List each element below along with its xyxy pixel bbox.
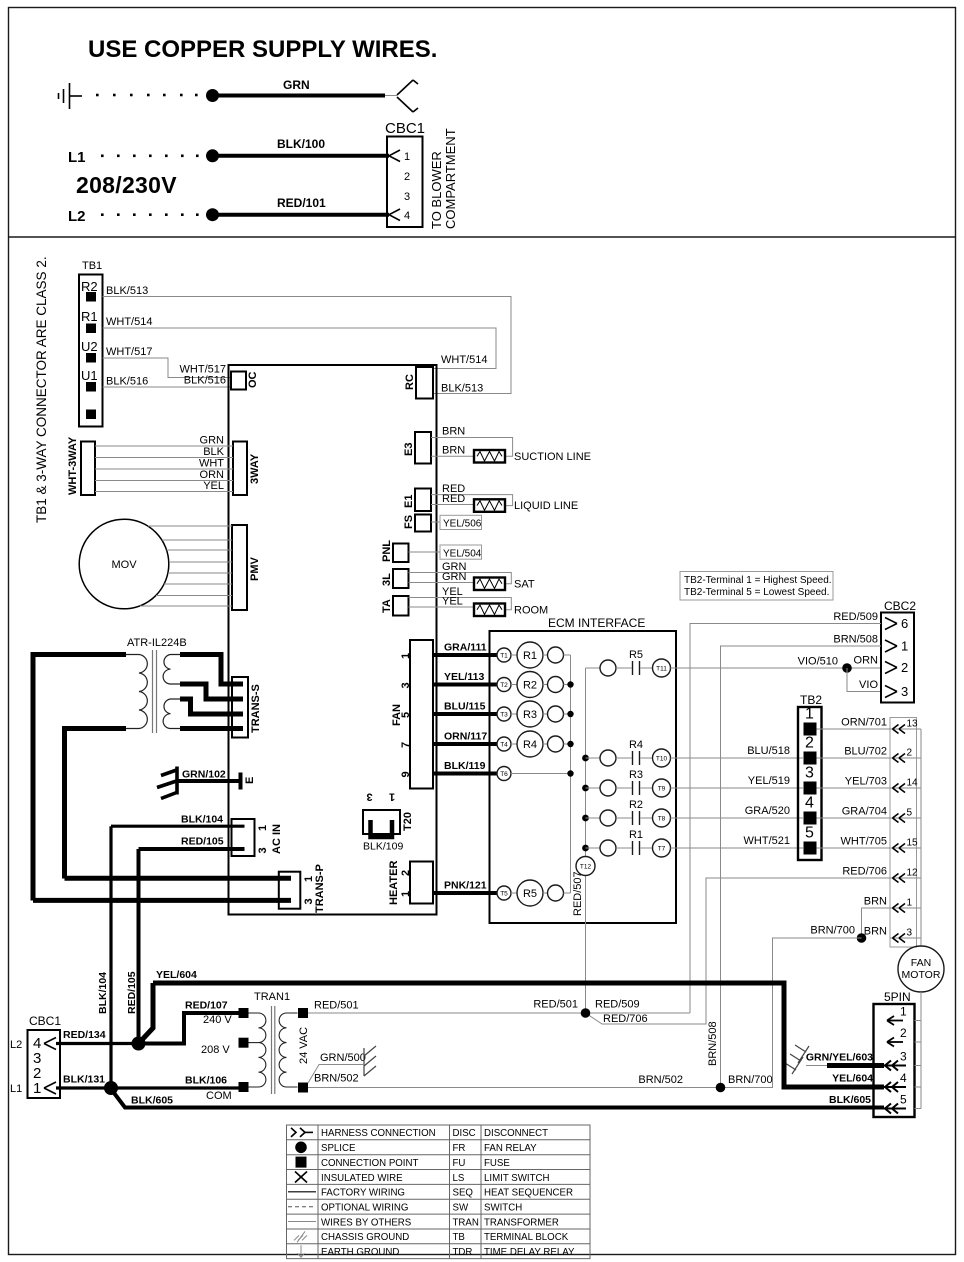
svg-text:5: 5	[900, 1093, 907, 1107]
svg-text:YEL/703: YEL/703	[845, 776, 887, 788]
ECM node circle R3	[543, 713, 548, 715]
connector FS	[415, 515, 431, 532]
legend symbol splice	[295, 1142, 307, 1154]
svg-text:3: 3	[900, 1050, 907, 1064]
wire: dotted L2 lead	[101, 213, 199, 216]
wire YEL/506	[431, 521, 440, 523]
TRANS-P pin 3 wire	[33, 898, 291, 903]
svg-text:240 V: 240 V	[203, 1014, 232, 1026]
svg-text:4: 4	[404, 210, 410, 222]
svg-text:OC: OC	[247, 371, 259, 388]
svg-text:T8: T8	[658, 816, 666, 823]
wire RED lower (liquid)	[431, 504, 474, 506]
wire: ATR primary bottom lead	[65, 729, 127, 879]
ECM input T4	[497, 737, 511, 751]
section divider line	[9, 236, 956, 238]
svg-text:WHT/521: WHT/521	[744, 835, 790, 847]
ECM input T2	[497, 678, 511, 692]
connector 3L	[393, 569, 409, 588]
svg-text:15: 15	[907, 838, 919, 849]
CBC2 pin 6	[885, 618, 897, 630]
svg-text:FU: FU	[453, 1158, 466, 1169]
svg-text:YEL/604: YEL/604	[832, 1073, 873, 1085]
connector E3	[415, 432, 431, 464]
svg-text:1: 1	[907, 898, 913, 909]
svg-text:OPTIONAL WIRING: OPTIONAL WIRING	[321, 1203, 408, 1214]
svg-text:TRANS-S: TRANS-S	[250, 684, 262, 733]
bus to 5PIN	[920, 992, 922, 1109]
connector OC	[231, 372, 246, 390]
svg-text:YEL/113: YEL/113	[444, 671, 484, 683]
svg-text:VIO: VIO	[859, 679, 878, 691]
wire TB2 to harness	[817, 787, 891, 789]
legend symbol wires by others	[288, 1221, 316, 1223]
connector WHT-3WAY	[81, 442, 95, 496]
5PIN pin 5	[915, 1108, 922, 1110]
wire RED/706	[586, 878, 891, 1024]
svg-text:CHASSIS GROUND: CHASSIS GROUND	[321, 1232, 409, 1243]
svg-text:WHT/705: WHT/705	[841, 836, 887, 848]
svg-text:WHT/514: WHT/514	[106, 316, 152, 328]
harness pin 1 (BRN)	[890, 907, 921, 909]
fan motor harness connector	[890, 718, 917, 948]
junction on contact bus	[582, 815, 589, 822]
svg-text:BRN/502: BRN/502	[638, 1074, 683, 1086]
svg-text:WHT/514: WHT/514	[441, 354, 487, 366]
svg-text:L1: L1	[10, 1083, 22, 1095]
wire RED upper (liquid)	[431, 495, 513, 506]
wire GRA/111	[433, 653, 497, 657]
wire ORN/117	[433, 742, 497, 746]
TRAN1 core	[271, 1006, 273, 1094]
svg-text:VIO/510: VIO/510	[798, 656, 838, 668]
ECM relay coil R3	[511, 713, 517, 715]
ATR secondary coil lower	[163, 699, 181, 729]
svg-text:GRA/704: GRA/704	[842, 806, 887, 818]
svg-text:T3: T3	[500, 712, 508, 719]
svg-text:CBC2: CBC2	[884, 599, 916, 613]
svg-text:L2: L2	[68, 208, 86, 225]
jumper BLK/109	[371, 820, 393, 837]
svg-text:ORN: ORN	[854, 655, 879, 667]
note TB2 speeds	[680, 572, 833, 601]
ECM contact R3	[586, 787, 601, 789]
wire TB2 to harness	[817, 757, 891, 759]
svg-text:RED/509: RED/509	[833, 611, 878, 623]
ECM input T5	[497, 886, 511, 900]
svg-text:BLK/605: BLK/605	[829, 1094, 871, 1106]
svg-text:BLK/100: BLK/100	[277, 137, 325, 151]
connector FAN	[410, 640, 433, 789]
svg-text:SAT: SAT	[514, 579, 535, 591]
CBC2 pin 3	[885, 686, 897, 698]
wire TB2 to harness	[817, 728, 891, 730]
svg-text:2: 2	[907, 748, 913, 759]
svg-text:CBC1: CBC1	[385, 120, 425, 137]
connector AC IN	[232, 819, 255, 856]
legend symbol earth ground	[298, 1245, 305, 1257]
wire GRN (thick)	[213, 94, 386, 98]
svg-text:MOV: MOV	[111, 559, 137, 571]
svg-text:3L: 3L	[381, 573, 393, 586]
ECM contact R5	[586, 667, 601, 669]
svg-text:DISC: DISC	[453, 1128, 476, 1139]
svg-text:R2: R2	[523, 680, 537, 692]
ECM node circle R1	[543, 654, 548, 656]
svg-text:HEAT SEQUENCER: HEAT SEQUENCER	[484, 1188, 573, 1199]
svg-text:R3: R3	[629, 769, 643, 781]
wire BRN lower (suction)	[431, 455, 474, 457]
svg-text:BLK: BLK	[203, 446, 224, 458]
svg-text:TB1: TB1	[82, 260, 102, 272]
wire WHT/514 from TB1-R1 to RC	[103, 328, 497, 369]
svg-text:RED/509: RED/509	[595, 999, 640, 1011]
connector PNL	[393, 544, 409, 563]
ECM output T9	[653, 779, 671, 797]
svg-text:R3: R3	[523, 709, 537, 721]
wire RED/501 to splice	[308, 1012, 690, 1014]
svg-text:INSULATED WIRE: INSULATED WIRE	[321, 1173, 403, 1184]
wire RED/101 (thick)	[213, 213, 390, 217]
ECM relay coil R4	[511, 743, 517, 745]
svg-text:TB1 & 3-WAY CONNECTOR ARE CLAS: TB1 & 3-WAY CONNECTOR ARE CLASS 2.	[34, 256, 49, 523]
svg-text:3: 3	[805, 765, 814, 782]
svg-text:ORN/117: ORN/117	[444, 731, 487, 743]
TRAN1 secondary coil	[279, 1013, 297, 1087]
svg-text:WHT-3WAY: WHT-3WAY	[67, 436, 79, 495]
svg-text:ORN/701: ORN/701	[841, 717, 887, 729]
wire BLK/131	[56, 1086, 111, 1089]
ECM output T12	[576, 857, 595, 876]
svg-text:CBC1: CBC1	[29, 1014, 61, 1028]
varistor MOV	[79, 519, 169, 609]
wire BRN/508 to CBC2 pin 1	[721, 646, 882, 1088]
wire YEL/604	[153, 983, 884, 1087]
AC IN pin 3 wire RED/105	[139, 847, 245, 851]
svg-text:U1: U1	[81, 368, 98, 383]
svg-text:BLU/115: BLU/115	[444, 701, 486, 713]
svg-text:E1: E1	[403, 495, 415, 508]
wire YEL/519 T-output to TB2	[671, 787, 804, 789]
ECM output T10	[653, 749, 671, 767]
ECM node circle R4	[543, 743, 548, 745]
svg-text:GRN/YEL/603: GRN/YEL/603	[806, 1052, 873, 1064]
svg-text:5: 5	[400, 712, 412, 718]
svg-text:5: 5	[805, 825, 814, 842]
svg-text:TIME DELAY RELAY: TIME DELAY RELAY	[484, 1247, 575, 1258]
thermistor SUCTION LINE	[474, 450, 505, 463]
ECM output T8	[653, 809, 671, 827]
svg-text:TERMINAL BLOCK: TERMINAL BLOCK	[484, 1232, 569, 1243]
svg-text:BRN/508: BRN/508	[707, 1021, 719, 1066]
thermistor SAT	[474, 578, 505, 591]
svg-text:BLU/702: BLU/702	[844, 746, 887, 758]
svg-text:TDR: TDR	[453, 1247, 473, 1258]
wire WHT (3way)	[95, 468, 233, 470]
svg-text:1: 1	[404, 151, 410, 163]
svg-text:BLK/516: BLK/516	[106, 376, 148, 388]
svg-text:5: 5	[907, 808, 913, 819]
legend symbol connection point	[296, 1157, 307, 1168]
svg-text:AC IN: AC IN	[271, 824, 283, 854]
svg-text:TA: TA	[381, 599, 393, 613]
connection point 208V	[239, 1038, 249, 1048]
wire BRN/700	[721, 938, 862, 1088]
svg-text:EARTH GROUND: EARTH GROUND	[321, 1247, 399, 1258]
svg-text:RED/105: RED/105	[126, 971, 138, 1014]
svg-text:TB2-Terminal 5 = Lowest Speed.: TB2-Terminal 5 = Lowest Speed.	[684, 587, 829, 598]
wire BLK/106	[111, 1086, 239, 1089]
wire GRA/520 T-output to TB2	[671, 817, 804, 819]
5PIN pin 4	[915, 1086, 922, 1088]
svg-text:ECM INTERFACE: ECM INTERFACE	[548, 616, 645, 630]
svg-text:BLK/513: BLK/513	[441, 383, 483, 395]
svg-text:HARNESS CONNECTION: HARNESS CONNECTION	[321, 1128, 436, 1139]
svg-text:HEATER: HEATER	[388, 861, 400, 905]
svg-text:FACTORY WIRING: FACTORY WIRING	[321, 1188, 405, 1199]
legend symbol factory wiring	[288, 1191, 316, 1193]
connection point 240V	[239, 1008, 249, 1018]
svg-text:208/230V: 208/230V	[76, 172, 177, 198]
svg-text:1: 1	[901, 639, 908, 654]
wire T6 to bus	[511, 773, 571, 775]
connector HEATER	[410, 862, 433, 904]
svg-text:24 VAC: 24 VAC	[298, 1027, 310, 1064]
AC IN pin 1 wire BLK/104	[111, 825, 245, 828]
junction on contact bus	[582, 845, 589, 852]
svg-text:FR: FR	[453, 1143, 466, 1154]
ECM input T1	[497, 648, 511, 662]
chassis ground symbol (GRN wire end)	[397, 80, 418, 112]
svg-text:COM: COM	[206, 1090, 232, 1102]
svg-text:SEQ: SEQ	[453, 1188, 474, 1199]
legend symbol harness connection	[291, 1128, 313, 1137]
svg-text:RC: RC	[404, 374, 416, 390]
svg-text:FUSE: FUSE	[484, 1158, 510, 1169]
wire GRN/500 to chassis ground	[308, 1065, 363, 1084]
svg-text:4: 4	[900, 1071, 907, 1085]
svg-text:TRAN1: TRAN1	[254, 991, 290, 1003]
connection point RED/501	[298, 1008, 308, 1018]
svg-text:E3: E3	[403, 443, 415, 456]
svg-text:TO BLOWER: TO BLOWER	[429, 151, 444, 229]
svg-text:3: 3	[400, 682, 412, 688]
junction on coil bus	[567, 770, 573, 776]
svg-text:3: 3	[303, 898, 315, 904]
wire: ATR secondary tap3 to TRANS-S pin3	[180, 699, 243, 714]
wire: ATR secondary tap4 to TRANS-S pin4	[180, 726, 243, 731]
splice on BLK/100	[206, 149, 219, 162]
svg-text:T9: T9	[658, 786, 666, 793]
svg-text:YEL/519: YEL/519	[748, 775, 790, 787]
svg-text:1: 1	[400, 653, 412, 659]
svg-text:1: 1	[257, 825, 269, 831]
svg-text:BLK/119: BLK/119	[444, 760, 486, 772]
wire: ATR primary top lead	[33, 655, 126, 901]
ECM input T3	[497, 707, 511, 721]
splice VIO/510	[842, 663, 852, 673]
wire BRN to harness pin 1	[862, 908, 891, 938]
svg-text:BLK/516: BLK/516	[184, 375, 226, 387]
svg-text:TRAN: TRAN	[453, 1217, 479, 1228]
svg-text:2: 2	[404, 171, 410, 183]
wire TB2 to harness	[817, 847, 891, 849]
svg-text:T20: T20	[402, 812, 414, 831]
svg-text:GRA/520: GRA/520	[745, 805, 790, 817]
svg-text:RED/501: RED/501	[314, 1000, 359, 1012]
svg-text:PMV: PMV	[249, 557, 261, 582]
svg-text:USE COPPER SUPPLY WIRES.: USE COPPER SUPPLY WIRES.	[88, 36, 437, 63]
wire: dotted L1 lead	[101, 155, 199, 158]
junction on contact bus	[582, 785, 589, 792]
junction on coil bus	[567, 741, 573, 747]
junction on contact bus	[582, 755, 589, 762]
svg-text:FAN: FAN	[911, 957, 931, 969]
CBC1 pin 1	[389, 150, 400, 162]
svg-text:PNL: PNL	[381, 540, 393, 562]
svg-text:YEL/504: YEL/504	[443, 548, 482, 559]
svg-text:RED/134: RED/134	[63, 1029, 106, 1041]
svg-text:3: 3	[257, 847, 269, 853]
TRAN1 primary coil	[249, 1013, 266, 1087]
connection point BRN/502	[298, 1083, 308, 1093]
svg-text:MOTOR: MOTOR	[902, 969, 941, 981]
svg-text:BRN/508: BRN/508	[833, 634, 878, 646]
svg-text:1: 1	[389, 790, 395, 802]
connector TRANS-S	[232, 677, 248, 738]
svg-text:DISCONNECT: DISCONNECT	[484, 1128, 548, 1139]
wire TB2 to harness	[817, 817, 891, 819]
svg-text:BLK/131: BLK/131	[63, 1074, 105, 1086]
junction on coil bus	[567, 711, 573, 717]
svg-text:BRN/502: BRN/502	[314, 1073, 359, 1085]
svg-text:2: 2	[900, 1026, 907, 1040]
harness pin 15 (WHT/705)	[890, 847, 921, 849]
wire BLK/605	[111, 1089, 884, 1108]
svg-text:FAN RELAY: FAN RELAY	[484, 1143, 537, 1154]
ATR primary coil	[126, 655, 147, 729]
svg-text:BRN: BRN	[442, 445, 465, 457]
harness pin 2 (BLU/702)	[890, 757, 921, 759]
svg-text:1: 1	[900, 1005, 907, 1019]
svg-text:6: 6	[901, 616, 908, 631]
svg-text:T5: T5	[500, 891, 508, 898]
svg-text:T4: T4	[500, 742, 508, 749]
svg-text:SPLICE: SPLICE	[321, 1143, 356, 1154]
svg-text:7: 7	[400, 742, 412, 748]
legend table grid	[287, 1125, 591, 1259]
ECM node circle R2	[543, 684, 548, 686]
svg-text:BRN: BRN	[442, 426, 465, 438]
chassis ground GRN/102	[157, 767, 178, 799]
legend symbol optional wiring	[288, 1206, 316, 1208]
wire BRN/502 to splice	[308, 1087, 721, 1089]
wire YEL/504	[409, 551, 441, 553]
ATR secondary coil upper	[163, 655, 181, 685]
TRAN1 primary mid tap	[249, 1042, 259, 1044]
wire BLK/513 from TB1-R2 to RC	[103, 297, 512, 394]
svg-text:T2: T2	[500, 682, 508, 689]
splice BRN/502-508-700	[716, 1083, 726, 1093]
motor FAN MOTOR	[898, 946, 944, 992]
svg-text:R5: R5	[523, 888, 537, 900]
svg-text:YEL/506: YEL/506	[443, 519, 482, 530]
wire: ATR secondary tap2 to TRANS-S pin2	[180, 684, 243, 699]
svg-text:RED/501: RED/501	[533, 999, 578, 1011]
svg-text:BRN/700: BRN/700	[810, 925, 855, 937]
wire BLK (3way)	[95, 457, 233, 459]
svg-text:SWITCH: SWITCH	[484, 1203, 522, 1214]
svg-text:R1: R1	[629, 829, 643, 841]
connector RC	[416, 367, 433, 399]
wire BLU/518 T-output to TB2	[671, 757, 804, 759]
wire GRN upper (SAT)	[409, 573, 512, 584]
legend text rows	[321, 1128, 575, 1258]
svg-text:RED/706: RED/706	[603, 1013, 648, 1025]
ECM input T6	[497, 767, 511, 781]
splice on GRN wire	[206, 89, 219, 102]
legend symbol insulated wire	[295, 1172, 307, 1183]
splice on RED/101	[206, 208, 219, 221]
svg-text:GRN: GRN	[283, 78, 310, 92]
svg-text:FS: FS	[403, 515, 415, 529]
svg-text:T7: T7	[658, 846, 666, 853]
svg-text:R2: R2	[629, 799, 643, 811]
svg-text:RED/706: RED/706	[842, 866, 887, 878]
svg-text:2: 2	[901, 660, 908, 675]
TRANS-P pin 1 wire	[65, 876, 292, 881]
wire ORN (3way)	[95, 480, 233, 482]
svg-text:E: E	[244, 777, 256, 784]
svg-text:R4: R4	[523, 739, 537, 751]
splice BLK (L1)	[104, 1081, 118, 1095]
svg-text:12: 12	[907, 868, 919, 879]
connector PMV	[232, 525, 247, 610]
splice BRN/700	[857, 933, 867, 943]
svg-text:BRN: BRN	[864, 896, 887, 908]
svg-text:TB: TB	[453, 1232, 465, 1243]
ECM output T7	[653, 839, 671, 857]
svg-text:TRANS-P: TRANS-P	[314, 864, 326, 913]
ECM contact bus vertical RED/507	[585, 668, 587, 856]
svg-text:R1: R1	[523, 650, 537, 662]
svg-text:RED/507: RED/507	[572, 871, 584, 916]
ECM relay coil R5	[511, 892, 517, 894]
wire BLK/516 from TB1-U1 to OC	[103, 386, 232, 388]
svg-text:RED: RED	[442, 493, 465, 505]
harness pin 13 (ORN/701)	[890, 728, 921, 730]
splice RED (L2)	[132, 1037, 146, 1051]
connector T20	[363, 810, 400, 834]
wires MOV to PMV	[140, 526, 232, 606]
wire RED/105 vertical	[137, 849, 141, 1044]
thermistor ROOM	[474, 604, 505, 617]
svg-text:T11: T11	[656, 666, 667, 673]
wire BRN upper (suction)	[431, 438, 513, 457]
terminal E	[239, 773, 243, 790]
svg-text:BRN/700: BRN/700	[728, 1074, 773, 1086]
wire GRN lower (SAT)	[409, 582, 475, 584]
CBC2 pin 2	[885, 662, 897, 674]
svg-text:CONNECTION POINT: CONNECTION POINT	[321, 1158, 418, 1169]
svg-text:GRN: GRN	[442, 571, 467, 583]
harness pin 14 (YEL/703)	[890, 787, 921, 789]
chassis ground GRN/500	[364, 1046, 376, 1076]
svg-text:PNK/121: PNK/121	[444, 880, 487, 892]
svg-text:5PIN: 5PIN	[884, 990, 911, 1004]
harness pin 12 (RED/706)	[890, 877, 921, 879]
harness pin 3 (BRN)	[890, 937, 921, 939]
